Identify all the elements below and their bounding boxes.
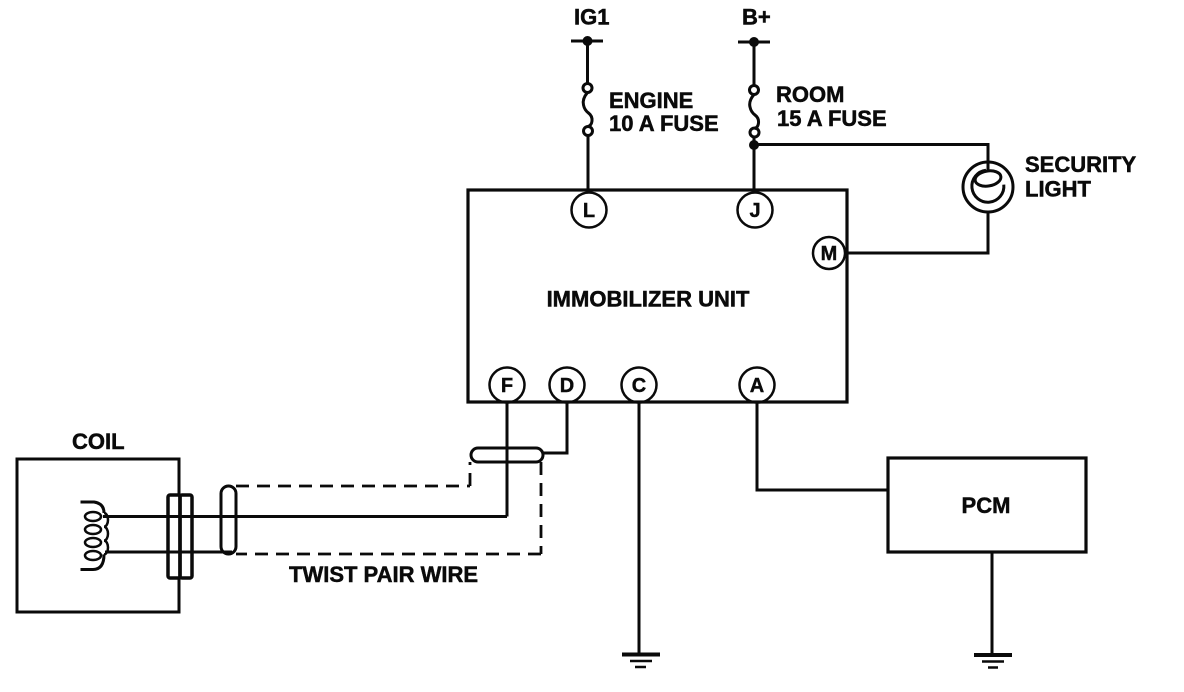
svg-text:IMMOBILIZER UNIT: IMMOBILIZER UNIT: [547, 287, 750, 312]
svg-text:LIGHT: LIGHT: [1025, 177, 1092, 202]
svg-text:IG1: IG1: [574, 5, 609, 30]
svg-text:B+: B+: [742, 5, 771, 30]
svg-text:C: C: [632, 375, 646, 397]
svg-text:ENGINE: ENGINE: [609, 88, 693, 113]
svg-text:10 A FUSE: 10 A FUSE: [609, 111, 719, 136]
svg-text:M: M: [821, 243, 838, 265]
svg-text:A: A: [750, 375, 764, 397]
svg-text:D: D: [560, 375, 574, 397]
svg-text:F: F: [501, 375, 513, 397]
svg-text:J: J: [749, 200, 760, 222]
svg-text:SECURITY: SECURITY: [1025, 152, 1137, 177]
svg-text:COIL: COIL: [72, 429, 125, 454]
svg-text:ROOM: ROOM: [776, 82, 844, 107]
svg-text:TWIST PAIR WIRE: TWIST PAIR WIRE: [289, 562, 478, 587]
svg-text:PCM: PCM: [962, 493, 1011, 518]
svg-text:L: L: [583, 200, 595, 222]
svg-text:15 A FUSE: 15 A FUSE: [777, 106, 887, 131]
